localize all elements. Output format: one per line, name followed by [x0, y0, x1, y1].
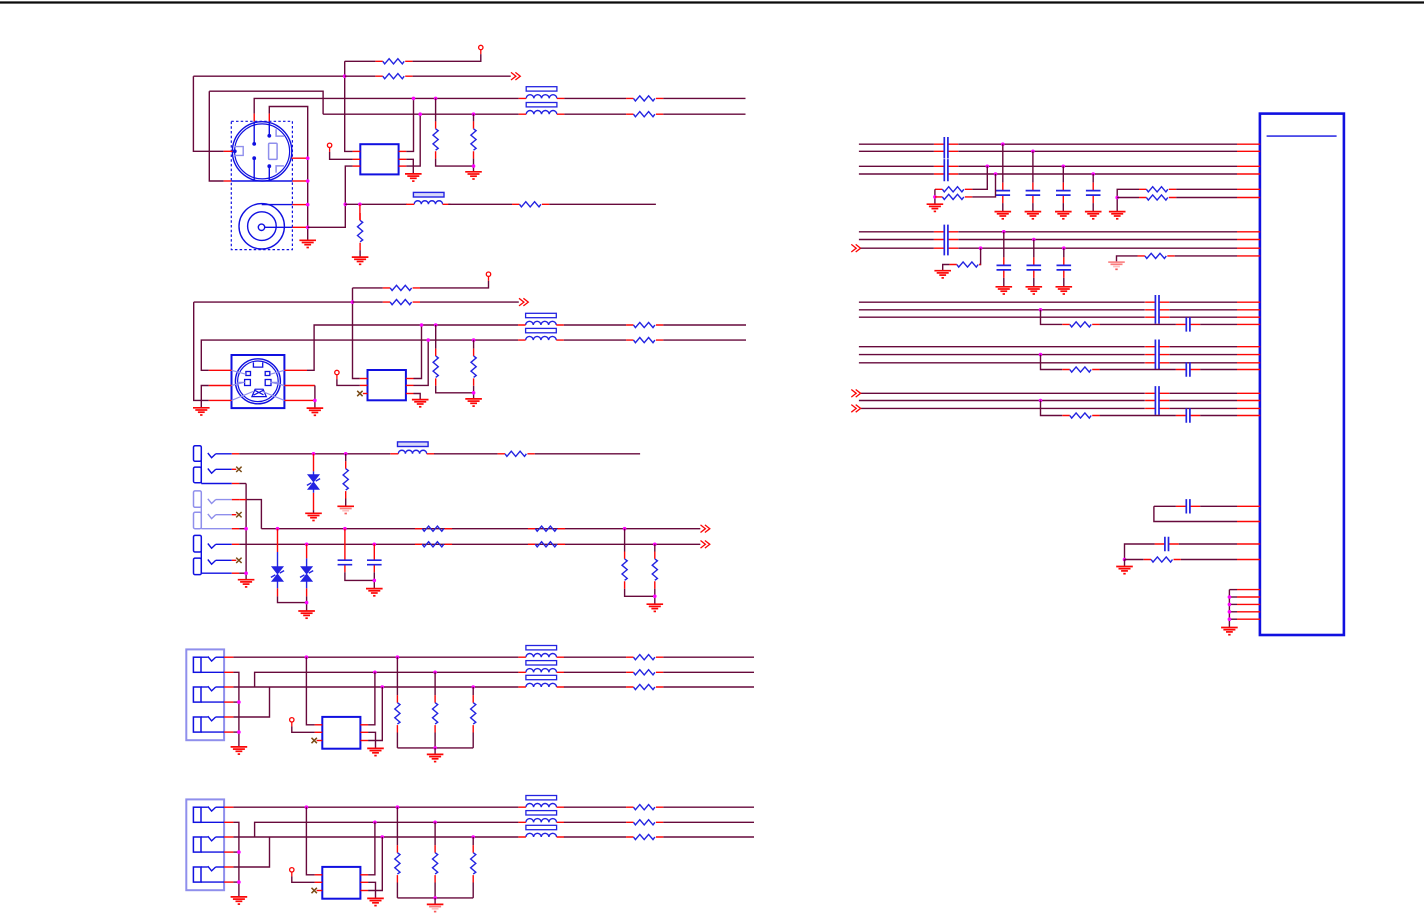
junction [305, 655, 309, 659]
wire shunt cap drop [1063, 248, 1065, 257]
junction [653, 543, 657, 547]
junction [351, 300, 355, 304]
no-connect X [312, 888, 317, 893]
junction [381, 835, 385, 839]
wire feed R9 vertical [353, 288, 360, 379]
ground [1056, 287, 1073, 294]
resistor R5 [626, 96, 663, 101]
junction [306, 203, 310, 207]
capacitor C17-C19 [1145, 295, 1169, 324]
wire VR1 bottom [396, 883, 398, 898]
wire line B2 after choke [564, 339, 626, 341]
ground [427, 754, 444, 761]
resistor R15 [498, 451, 535, 456]
capacitor C5 C6 [934, 159, 958, 181]
junction [653, 595, 657, 599]
capacitor C20 [1176, 317, 1200, 331]
wire branch to cap [1100, 323, 1176, 325]
U1 pin stub [1237, 392, 1260, 394]
wire shield rail [233, 672, 239, 747]
off-page connector [851, 405, 860, 413]
wire R4 bottom [473, 159, 475, 172]
capacitor C3 C4 [934, 137, 958, 159]
wire R22 to ground [654, 589, 656, 604]
resistor R23 [626, 655, 663, 660]
junction [1039, 353, 1043, 357]
resistor R11 [433, 349, 438, 386]
junction [237, 880, 241, 884]
wire row1 to bead [239, 453, 390, 455]
wire after choke [564, 806, 626, 808]
wire to U1 [1169, 400, 1237, 402]
U1 pin stub [1237, 354, 1260, 356]
ground GND12 [298, 611, 315, 618]
connector J1 pin dots [252, 142, 256, 146]
no-connect X [312, 738, 317, 743]
common-mode choke T2 [518, 313, 564, 340]
ground [1025, 212, 1042, 219]
wire bead line start [345, 203, 407, 205]
capacitor C10 [1086, 183, 1101, 204]
wire VR feed 2 [434, 672, 436, 695]
NC pin [290, 868, 294, 877]
capacitor C8 [1026, 183, 1041, 204]
wire line end [663, 806, 754, 808]
wire NC to U3 pin2 [337, 379, 360, 385]
wire Rd left [1117, 197, 1139, 199]
wire box pinR1 to row2 [368, 822, 375, 875]
junction [1062, 165, 1066, 169]
wire VR feed 2 [434, 822, 436, 845]
U1 pin stub [1237, 407, 1260, 409]
wire line end [663, 671, 754, 673]
connector J1 pin stems [254, 121, 269, 181]
connector J1 lower-right notch [276, 166, 284, 173]
U1 pin stub [1237, 521, 1260, 523]
wire group1 line left [859, 143, 934, 145]
wire group2 return [239, 528, 246, 530]
wire to U1 [1169, 407, 1237, 409]
wire row5 run [239, 543, 700, 545]
wire group line2 [859, 354, 1145, 356]
resistor R29 [626, 805, 663, 810]
U1 pin stub [1237, 618, 1260, 620]
resistor R3 [433, 121, 438, 158]
wire group2 line right [958, 239, 1237, 241]
junction [373, 543, 377, 547]
ground GND5 [193, 408, 210, 415]
off-page connector [851, 390, 860, 398]
wire line end [663, 686, 754, 688]
U1 pin stub [1237, 362, 1260, 364]
connector J1 pin stubs [253, 114, 255, 122]
connector J5 stubs [224, 656, 233, 658]
wire cap to ground [1002, 203, 1004, 211]
connector J3 keyway [252, 389, 266, 396]
junction [1001, 142, 1005, 146]
wire U3 pin5 to line B2 [414, 340, 429, 385]
junction [343, 74, 347, 78]
common-mode choke T4 [518, 796, 564, 838]
junction [1228, 617, 1232, 621]
wire VR feed 1 [396, 657, 398, 695]
no-connect X2 [236, 467, 241, 472]
filter U5 [322, 867, 360, 899]
NC pin P2 [327, 143, 331, 152]
resistor R37 [1139, 187, 1176, 192]
junction [1039, 308, 1043, 312]
wire VR2 bottom [434, 883, 436, 898]
wire D2 bottom [278, 596, 307, 602]
wire line B end [663, 113, 745, 115]
capacitor C16 [1057, 257, 1072, 278]
wire row2 jog [255, 822, 519, 837]
wire line end [663, 656, 754, 658]
common-mode choke T3 [518, 646, 564, 688]
wire Ra-Rb left corner [934, 189, 936, 204]
U1 pin stub [1237, 143, 1260, 145]
resistor R44 [1144, 557, 1181, 562]
wire line A2 end [663, 324, 746, 326]
wire cap to ground [1063, 278, 1065, 287]
ground GND7 [412, 400, 429, 407]
wire Ra right lead [972, 166, 987, 189]
junction [471, 835, 475, 839]
ferrite bead FB1 [406, 192, 450, 204]
connector J3 circles [235, 359, 280, 404]
ground GND8 [465, 399, 482, 406]
wire line B after choke [564, 113, 626, 115]
no-connect X1 [357, 391, 362, 396]
junction [1031, 150, 1035, 154]
wire U3 pin6 to line A2 [414, 325, 422, 379]
U1 pin stub [1237, 369, 1260, 371]
U1 pin stub [1237, 611, 1260, 613]
junction [237, 730, 241, 734]
junction [979, 246, 983, 250]
connector J1 dashed outline [231, 121, 292, 249]
wire group1 line left [859, 173, 934, 175]
junction [994, 172, 998, 176]
resistor R35 [935, 187, 972, 192]
junction [433, 746, 437, 750]
wire R3 top [435, 98, 437, 121]
junction [420, 323, 424, 327]
wire R9 feed [353, 287, 383, 289]
resistor R4 [471, 121, 476, 158]
junction [358, 203, 362, 207]
wire group line1 [859, 301, 1145, 303]
wire after choke [564, 671, 626, 673]
wire R3 bottom [436, 159, 474, 167]
wire loop top [1154, 505, 1176, 507]
wire line A after choke [564, 97, 626, 99]
junction [244, 571, 248, 575]
wire box pinR1 to row2 [368, 672, 375, 725]
ground [1026, 287, 1043, 294]
wire pin to bus [1229, 589, 1237, 591]
wire group1 line right [958, 173, 1237, 175]
ground [231, 897, 248, 904]
ground [1221, 628, 1238, 635]
wire group1 line right [958, 150, 1237, 152]
wire shunt cap drop [1033, 240, 1035, 258]
connector J2 tip contact line [262, 204, 293, 206]
connector J1 shield line [231, 180, 292, 182]
connector J3 pin squares [246, 372, 251, 376]
wire line B2 start [201, 340, 518, 370]
U left stubs [315, 724, 323, 726]
off-page connector OUT2 [519, 298, 528, 306]
resistor R16 [343, 461, 348, 498]
junction [237, 700, 241, 704]
wire group line3 [859, 362, 1145, 364]
wire line B2 end [663, 339, 746, 341]
wire to U1 [1169, 316, 1237, 318]
resistor R12 [471, 349, 476, 386]
U1 pin stub [1237, 346, 1260, 348]
wire bead to R7 [448, 203, 512, 205]
ground GND11 [238, 580, 255, 587]
wire group line2 [859, 309, 1145, 311]
ground [1085, 212, 1102, 219]
resistor R28 [471, 695, 476, 732]
wire bank ground drop [434, 748, 436, 754]
U3 right pin stubs [406, 378, 414, 380]
junction [433, 896, 437, 900]
junction [306, 179, 310, 183]
ground [996, 287, 1013, 294]
wire VR2 bottom [434, 733, 436, 748]
wire group line2 [859, 400, 1145, 402]
filter U2 [360, 144, 398, 174]
junction [1002, 230, 1006, 234]
ground AGND [1108, 262, 1125, 269]
wire shield rail [233, 822, 239, 897]
wire to U1 [1169, 354, 1237, 356]
junction [276, 527, 280, 531]
U1 pin stub [1237, 603, 1260, 605]
TVS diode D2 [271, 529, 284, 597]
connector J3 body [232, 355, 285, 408]
wire R8 top [359, 204, 361, 220]
ground [427, 904, 444, 911]
wire branch to U1 [1200, 369, 1237, 371]
connector J4 bottom lines [201, 483, 232, 485]
NC pin P3 [486, 272, 490, 281]
connector J1 keyway [269, 143, 278, 159]
U1 pin stub [1237, 301, 1260, 303]
wire line A from DIN pin1 [254, 98, 519, 113]
connector J1 upper-right notch [276, 129, 284, 136]
wire R2 feed [345, 75, 376, 77]
wire U2 pin6 to line A [406, 98, 413, 151]
wire U2 pin5 to ground [406, 159, 413, 174]
wire branch to cap [1100, 415, 1176, 417]
wire U2 pin3 from jack sleeve [308, 166, 353, 227]
resistor R34 [471, 845, 476, 882]
junction [1062, 246, 1066, 250]
wire box pinR3 to row3 [368, 687, 382, 741]
wire NC to box pin2 [292, 876, 315, 882]
wire bead to R15 [434, 453, 498, 455]
junction [1091, 172, 1095, 176]
wire R9 to NC pin [420, 281, 489, 288]
ground GND10 AGND [337, 506, 354, 513]
junction [373, 671, 377, 675]
wire shunt cap drop [1032, 151, 1034, 182]
capacitor C29 [1176, 499, 1200, 513]
junction [305, 805, 309, 809]
wire R21 bottom [625, 589, 655, 597]
wire ground rail vertical [245, 484, 247, 580]
wire branch to U1 [1200, 415, 1237, 417]
wire to U1 [1169, 346, 1237, 348]
junction [381, 685, 385, 689]
wire to ground [1124, 560, 1126, 567]
wire to U1 [1169, 309, 1237, 311]
wire after choke [564, 686, 626, 688]
U1 pin stub [1237, 543, 1260, 545]
junction [472, 164, 476, 168]
wire R4 top [473, 114, 475, 121]
junction [1115, 196, 1119, 200]
ground [1109, 212, 1126, 219]
junction [986, 165, 990, 169]
wire to U1 pin [1200, 505, 1237, 507]
wire line end [663, 836, 754, 838]
wire Rc to U1 [1176, 188, 1237, 190]
connector J6 stubs [224, 806, 233, 808]
wire R8 to ground [359, 250, 361, 257]
capacitor C25-C27 [1145, 386, 1169, 415]
wire row3 jog [233, 837, 269, 867]
wire VR feed 3 [472, 687, 474, 695]
resistor R2 [375, 74, 412, 79]
junction [373, 579, 377, 583]
wire shunt cap drop [1003, 232, 1005, 258]
junction [1228, 610, 1232, 614]
resistor R38 [1139, 195, 1176, 200]
U1 refdes underline [1267, 135, 1337, 137]
common-mode choke T1 [519, 87, 565, 115]
wire box pin1 feed [306, 657, 314, 725]
capacitor C1 [338, 529, 353, 573]
wire D1 to ground [313, 510, 315, 513]
resistor R18 [528, 526, 565, 531]
wire left drop to J3 pin3 [194, 302, 209, 400]
wire row1 run [233, 806, 518, 808]
U1 pin stub [1237, 231, 1260, 233]
resistor R43 [1062, 413, 1099, 418]
off-page connector OUT3 [701, 525, 710, 533]
off-page connector OUT4 [701, 541, 710, 549]
U1 pin stub [1237, 150, 1260, 152]
NC pin P4 [335, 370, 339, 379]
U1 pin stub [1237, 316, 1260, 318]
ground GND13 [366, 589, 383, 596]
wire bank ground drop [434, 898, 436, 904]
wire loop left and bottom [1154, 506, 1237, 521]
wire pin to bus [1229, 603, 1237, 605]
junction [1123, 558, 1127, 562]
wire feed R1 top [345, 61, 353, 151]
U1 pin stub [1237, 415, 1260, 417]
filter U3 [368, 370, 406, 400]
wire R10 to off-page [420, 301, 519, 303]
connector J3 right stubs [284, 369, 307, 371]
connector J4 contact tabs [194, 446, 202, 575]
wire group line3 [859, 316, 1145, 318]
U right stubs [360, 724, 368, 726]
resistor R8 [358, 213, 363, 250]
wire line A end [663, 97, 745, 99]
wire D3 to ground [306, 596, 308, 611]
wire line A2 after choke [564, 324, 626, 326]
wire R11 bottom [436, 386, 474, 393]
ground [367, 748, 384, 755]
connector J2 power jack circles [239, 204, 284, 249]
TVS diode D1 [307, 454, 320, 510]
U1 pin stub [1237, 323, 1260, 325]
off-page connector IN1 [851, 244, 860, 252]
connector J1 DIN circle [232, 122, 291, 181]
U2 left pin stubs [353, 150, 361, 152]
wire bank bottom [397, 897, 473, 899]
capacitor C21-C23 [1145, 340, 1169, 370]
resistor R39 [949, 262, 980, 267]
wire NC to U2 pin2 [330, 152, 353, 159]
wire J3 shield to ground [314, 386, 316, 409]
junction [344, 203, 348, 207]
junction [396, 805, 400, 809]
wire group2 line left [859, 231, 934, 233]
wire R11 top [435, 325, 437, 349]
NC pin P1 [479, 45, 483, 54]
connector J1 left notch [235, 147, 244, 156]
resistor R36 [935, 194, 972, 199]
ferrite bead FB2 [390, 442, 434, 454]
junction [471, 685, 475, 689]
wire pin to bus [1229, 618, 1237, 620]
wire after choke [564, 656, 626, 658]
resistor R14 [626, 338, 663, 343]
connector J3 inner leads [232, 370, 285, 400]
wire C2 to ground [373, 572, 375, 588]
junction [623, 527, 627, 531]
junction [396, 655, 400, 659]
wire group2 line right [958, 231, 1237, 233]
junction [433, 821, 437, 825]
capacitor C30 [1155, 537, 1179, 551]
junction [306, 226, 310, 230]
capacitor C28 [1176, 408, 1200, 422]
U1 pin stub [1237, 559, 1260, 561]
resistor R42 [1062, 367, 1099, 372]
junction [306, 156, 310, 160]
wire line A2 start [307, 325, 518, 370]
wire R2 to off-page [413, 75, 511, 77]
U1 pin stub [1237, 188, 1260, 190]
wire VR feed 1 [396, 807, 398, 845]
wire pin to bus [1229, 596, 1237, 598]
wire DIN pin2 to ground rail [269, 107, 307, 241]
wire C1 bottom [345, 572, 374, 580]
resistor R41 [1062, 322, 1099, 327]
wire cap to ground [1032, 203, 1034, 211]
wire U2 pin4 to line B [406, 114, 420, 166]
ground [1116, 567, 1133, 574]
